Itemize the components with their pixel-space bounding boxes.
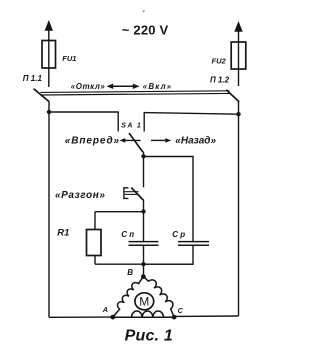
junction dot: right bus to SA1 feed bbox=[236, 112, 240, 116]
fuse FU2 bbox=[231, 42, 246, 69]
resistor R1 bbox=[87, 230, 102, 256]
svg-text:С: С bbox=[121, 230, 127, 239]
svg-text:А: А bbox=[102, 305, 108, 314]
svg-text:Рис. 1: Рис. 1 bbox=[125, 328, 173, 345]
switch П1.2 blade bbox=[226, 90, 239, 102]
node C bbox=[172, 315, 177, 320]
node A bbox=[110, 315, 115, 320]
wire: right bus bbox=[238, 102, 240, 316]
svg-text:С: С bbox=[178, 306, 184, 315]
svg-text:П 1.1: П 1.1 bbox=[23, 74, 43, 83]
label Сп bbox=[121, 230, 134, 239]
node B bbox=[141, 274, 146, 279]
svg-text:«Назад»: «Назад» bbox=[175, 136, 216, 147]
fuse FU1 bbox=[42, 41, 56, 69]
wire: Сп top bbox=[143, 212, 145, 242]
svg-text:П 1.2: П 1.2 bbox=[210, 76, 230, 85]
svg-text:FU2: FU2 bbox=[212, 57, 227, 66]
svg-text:п: п bbox=[129, 230, 134, 239]
push button «Разгон» blade bbox=[131, 188, 143, 200]
junction dot: Ср branch bbox=[141, 154, 145, 158]
junction dot: left bus to SA1 feed bbox=[47, 110, 51, 114]
motor winding B-C bbox=[143, 277, 174, 318]
motor winding A-C (bottom) bbox=[113, 311, 174, 317]
switch П1.1 blade bbox=[34, 89, 50, 102]
wire: RC top line bbox=[95, 211, 144, 213]
svg-text:«Вкл»: «Вкл» bbox=[143, 82, 172, 91]
junction dot: RC top bbox=[141, 209, 145, 213]
wire: bottom right (C to bus) bbox=[174, 315, 238, 317]
svg-text:SA 1: SA 1 bbox=[121, 123, 142, 130]
svg-text:«Вперед»: «Вперед» bbox=[65, 136, 120, 147]
motor winding B-A bbox=[113, 277, 144, 318]
wire: left bus bbox=[48, 102, 50, 317]
wire: left supply lead with up arrow bbox=[45, 20, 53, 87]
wire: Сп bottom bbox=[143, 245, 145, 264]
wire: R1 branch bottom bbox=[94, 256, 96, 265]
wire: to node B bbox=[143, 264, 145, 276]
svg-text:В: В bbox=[127, 268, 133, 277]
toggle direction arrow bbox=[107, 84, 140, 89]
svg-text:«Разгон»: «Разгон» bbox=[55, 190, 106, 201]
motor circle M bbox=[135, 293, 154, 310]
svg-text:FU1: FU1 bbox=[62, 54, 76, 63]
direction arrow right (Назад) bbox=[151, 138, 171, 143]
wire: Ср bottom bbox=[144, 245, 194, 264]
svg-text:С: С bbox=[172, 230, 178, 239]
wire: Ср branch top bbox=[144, 157, 194, 242]
svg-text:«Откл»: «Откл» bbox=[71, 82, 106, 91]
direction arrow left (Вперед) bbox=[120, 138, 141, 143]
wire: button output bbox=[143, 200, 145, 213]
switch SA1 blade bbox=[129, 133, 143, 152]
capacitor Сп bbox=[129, 242, 159, 246]
junction dot: RC bottom bbox=[141, 262, 145, 266]
wire: right supply lead with up arrow bbox=[234, 21, 242, 86]
wire: SA1 right feed bbox=[144, 113, 238, 132]
svg-text:р: р bbox=[179, 230, 185, 239]
wire: SA1 output bbox=[143, 152, 145, 188]
svg-text:~ 220 V: ~ 220 V bbox=[122, 22, 169, 37]
wire: SA1 left feed bbox=[49, 112, 118, 132]
mechanical link bar of switch П1 bbox=[41, 91, 231, 95]
wire: R1 branch top bbox=[94, 212, 96, 230]
push button «Разгон» actuator bbox=[124, 188, 139, 199]
label Ср bbox=[172, 230, 185, 239]
svg-text:R1: R1 bbox=[57, 228, 69, 239]
wire: bottom left (bus to A) bbox=[49, 316, 113, 318]
svg-text:М: М bbox=[139, 295, 149, 309]
wire: RC bottom line bbox=[95, 263, 193, 265]
stray dot bbox=[143, 10, 145, 12]
capacitor Ср bbox=[178, 242, 209, 246]
